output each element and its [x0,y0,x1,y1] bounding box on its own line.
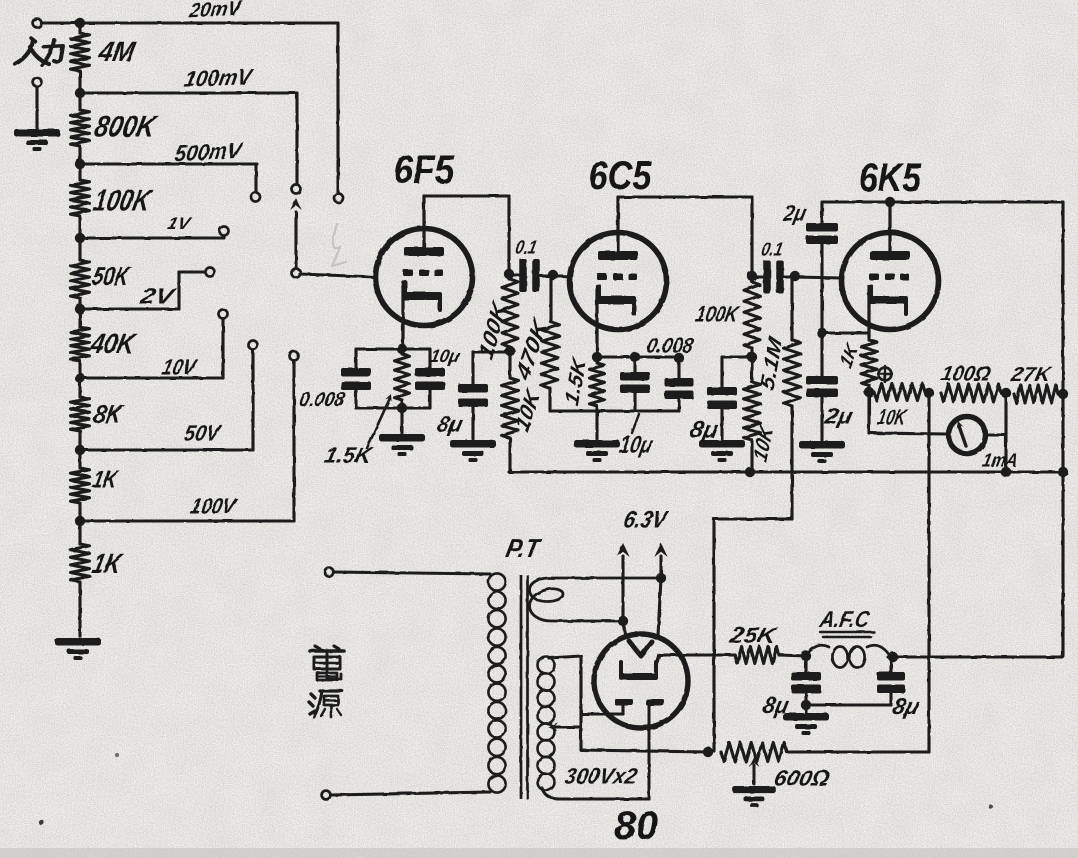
svg-text:8μ: 8μ [890,693,921,719]
svg-text:800K: 800K [92,111,161,144]
svg-text:40K: 40K [87,327,140,359]
svg-text:6K5: 6K5 [859,156,922,200]
svg-text:6C5: 6C5 [589,154,653,198]
svg-text:1mA: 1mA [980,451,1019,472]
svg-text:2μ: 2μ [822,404,856,429]
svg-text:100K: 100K [693,302,742,327]
svg-text:100mV: 100mV [182,64,255,91]
svg-text:10μ: 10μ [617,432,655,459]
svg-text:25K: 25K [727,623,780,648]
svg-text:500mV: 500mV [173,138,245,167]
svg-text:0.1: 0.1 [759,240,784,261]
svg-text:6F5: 6F5 [394,148,456,192]
svg-text:20mV: 20mV [187,0,244,22]
svg-text:6.3V: 6.3V [621,507,670,534]
svg-text:100K: 100K [91,185,156,218]
svg-text:600Ω: 600Ω [772,766,832,791]
svg-text:27K: 27K [1008,364,1054,386]
svg-text:300Vx2: 300Vx2 [562,764,640,789]
svg-text:0.008: 0.008 [297,389,347,411]
svg-text:100Ω: 100Ω [939,363,993,386]
svg-text:100V: 100V [188,494,239,519]
svg-text:0.1: 0.1 [513,238,538,259]
svg-text:80: 80 [614,804,658,848]
svg-text:0.008: 0.008 [645,335,696,358]
svg-text:A.F.C: A.F.C [817,606,873,632]
svg-text:10μ: 10μ [428,346,461,366]
